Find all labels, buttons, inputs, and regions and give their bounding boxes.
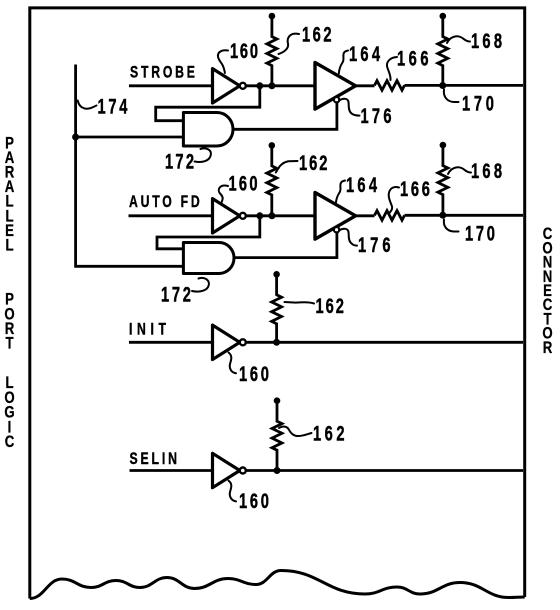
leader for label 170b <box>444 220 459 232</box>
junction resistor 162a tap <box>268 82 275 89</box>
junction resistor 162b tap <box>268 212 275 219</box>
leader for label 164a <box>339 51 348 74</box>
svg-text:162: 162 <box>316 294 346 317</box>
svg-text:170: 170 <box>462 92 498 115</box>
svg-text:164: 164 <box>349 42 383 65</box>
leader for label 172b <box>192 278 209 292</box>
svg-text:172: 172 <box>165 150 196 173</box>
AND gate 172b (AUTO FD) <box>183 243 234 274</box>
inverter 160d (SELIN) <box>213 453 240 487</box>
junction on bus 174 at AND gate 172a branch <box>72 134 79 141</box>
wire feedback from inverter 160b output to AND 172b upper input <box>157 216 260 249</box>
wire bus 174 (vertical) feeding AND gates <box>76 65 184 267</box>
svg-text:176: 176 <box>361 104 395 127</box>
leader for label 172a <box>195 148 211 162</box>
leader for label 176a <box>339 99 360 116</box>
svg-text:AUTO FD: AUTO FD <box>129 193 202 211</box>
junction node 170b <box>439 212 446 219</box>
leader for label 162d <box>279 427 312 437</box>
leader for label 164b <box>336 181 345 204</box>
junction resistor 162c tap <box>273 339 280 346</box>
leader for label 168b <box>448 167 471 174</box>
svg-text:160: 160 <box>229 172 260 195</box>
svg-text:INIT: INIT <box>129 321 171 339</box>
svg-text:162: 162 <box>302 23 334 46</box>
wire AND 172b output to driver 164b enable bubble 176b <box>234 233 337 258</box>
svg-text:162: 162 <box>299 151 329 174</box>
leader for label 166b <box>389 187 399 213</box>
resistor 168b (pull-up at connector, AUTO FD) <box>440 142 447 149</box>
wire resistor 166a to connector (net 170a) <box>405 84 524 87</box>
resistor 162a (pull-up, STROBE) <box>269 13 276 20</box>
enable bubble 176b on driver 164b <box>334 227 339 232</box>
wire inverter 160a output to driver 164a <box>246 84 315 87</box>
svg-text:160: 160 <box>230 39 260 62</box>
svg-text:SELIN: SELIN <box>130 450 180 468</box>
junction resistor 162d tap <box>274 467 281 474</box>
leader for label 166a <box>387 57 397 80</box>
leader for label 162c <box>285 302 315 304</box>
svg-text:162: 162 <box>313 422 348 445</box>
svg-text:164: 164 <box>346 173 380 196</box>
leader for label 170a <box>444 90 459 103</box>
wire inverter 160c output to connector (INIT) <box>246 341 523 344</box>
inverter 160c (INIT) <box>213 325 240 359</box>
leader for label 160b <box>219 186 228 204</box>
svg-text:174: 174 <box>98 95 131 118</box>
svg-text:R: R <box>543 338 553 357</box>
wire INIT input to inverter 160c <box>129 341 213 344</box>
wire feedback from inverter output to AND 172a upper input <box>156 86 260 121</box>
AND gate 172a (STROBE) <box>183 113 233 147</box>
wire resistor 166b to connector (net 170b) <box>405 214 524 217</box>
svg-text:168: 168 <box>471 159 505 182</box>
resistor 168a (pull-up at connector, STROBE) <box>440 13 447 20</box>
leader for label 162a <box>279 34 300 54</box>
svg-text:STROBE: STROBE <box>130 64 198 82</box>
wire inverter 160b output to driver 164b <box>246 214 315 217</box>
svg-text:T: T <box>5 334 13 353</box>
wire driver 164b output to resistor 166b <box>356 214 375 217</box>
leader for label 162b <box>276 161 298 173</box>
wire from bus 174 to AND gate 172a lower input <box>76 136 184 139</box>
leader for label 168a <box>447 36 470 43</box>
svg-text:168: 168 <box>471 29 505 52</box>
wire AND 172a output to driver 164a enable bubble 176a <box>233 103 337 130</box>
svg-text:166: 166 <box>400 177 433 200</box>
svg-text:170: 170 <box>465 222 498 245</box>
wire SELIN input to inverter 160d <box>130 469 213 472</box>
driver 164a (STROBE) <box>315 63 356 110</box>
inverter 160a (STROBE) <box>213 69 240 103</box>
junction feedback tap (AUTO FD row) <box>256 212 263 219</box>
resistor 162c (pull-up, INIT) <box>273 271 280 278</box>
enable bubble 176a on driver 164a <box>334 97 339 102</box>
driver 164b (AUTO FD) <box>315 193 356 240</box>
wire inverter 160d output to connector (SELIN) <box>246 469 523 472</box>
wavy break line at bottom of block <box>30 571 525 599</box>
leader for label 160a <box>218 50 228 73</box>
resistor 162b (pull-up, AUTO FD) <box>269 142 276 149</box>
wire STROBE input to inverter 160a <box>129 84 213 87</box>
svg-text:160: 160 <box>239 362 272 385</box>
svg-text:166: 166 <box>397 47 432 70</box>
resistor 162d (pull-up, SELIN) <box>274 397 281 404</box>
leader for label 160d <box>229 481 237 502</box>
wire driver 164a output to resistor 166a <box>356 84 375 87</box>
leader for label 160c <box>229 353 237 374</box>
svg-text:160: 160 <box>239 489 272 512</box>
resistor 166a (series, STROBE) <box>375 81 405 91</box>
inverter 160b (AUTO FD) <box>213 199 240 233</box>
caption PARALLEL PORT LOGIC (vertical, left) <box>4 134 14 451</box>
caption CONNECTOR (vertical, right) <box>542 225 552 357</box>
leader for label 176b <box>339 229 357 246</box>
leader for label 174 <box>78 101 97 109</box>
resistor 166b (series, AUTO FD) <box>375 211 405 221</box>
svg-text:172: 172 <box>161 283 194 306</box>
svg-text:C: C <box>5 433 15 452</box>
junction feedback tap (STROBE row) <box>256 82 263 89</box>
junction node 170a <box>439 82 446 89</box>
wire AUTO FD input to inverter 160b <box>129 214 213 217</box>
svg-text:176: 176 <box>358 233 394 256</box>
svg-text:L: L <box>5 236 13 255</box>
